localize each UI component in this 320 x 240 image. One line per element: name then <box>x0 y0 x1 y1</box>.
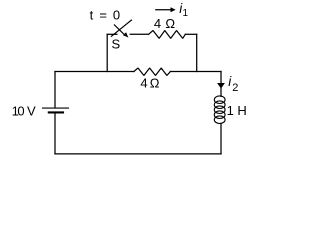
wire: left vertical bottom lead from battery to bottom rail <box>54 113 56 153</box>
svg-text:4: 4 <box>154 16 161 31</box>
wire: switch stub vertical from middle rail up to switch S <box>106 34 108 71</box>
wire: switch left lead <box>107 33 117 35</box>
svg-text:1: 1 <box>183 8 189 19</box>
resistor R2 4 ohm (middle branch) zigzag <box>134 68 171 76</box>
label i1 (top branch current) <box>179 1 188 19</box>
wire: left vertical top lead from node A to battery <box>54 72 56 108</box>
svg-text:t: t <box>90 8 94 23</box>
svg-text:4: 4 <box>140 76 147 91</box>
label i2 (inductor current) <box>228 74 238 94</box>
switch S blade (open arm) <box>111 20 131 36</box>
wire: top-right vertical from top rail down to middle rail <box>196 34 198 71</box>
resistor R1 4 ohm (top branch) zigzag <box>149 31 186 39</box>
svg-text:0: 0 <box>113 8 120 23</box>
wire: top rail right segment <box>185 33 196 35</box>
switch S closing-motion arrowhead <box>123 32 128 37</box>
wire: right vertical lower (inductor to bottom rail) <box>220 123 222 153</box>
svg-text:V: V <box>27 103 36 118</box>
svg-text:Ω: Ω <box>165 16 175 31</box>
label 10 V (battery V1) <box>12 103 36 118</box>
wire: middle rail left segment (node A to middle resistor) <box>55 71 134 73</box>
inductor L1 1 H coil <box>214 96 225 124</box>
battery V1 10 V negative plate (short thick) <box>49 111 63 113</box>
svg-text:=: = <box>99 8 107 23</box>
wire: middle rail right segment (middle resistor to node B) <box>170 71 221 73</box>
current arrow i2 head (on right vertical, pointing down) <box>217 83 225 89</box>
svg-text:S: S <box>112 36 121 51</box>
svg-text:Ω: Ω <box>150 76 160 91</box>
label 4 ohm (middle resistor R2) <box>140 76 159 91</box>
svg-text:1 H: 1 H <box>227 103 247 118</box>
wire: right vertical upper (node B down to inductor) <box>220 72 222 97</box>
switch S closing-motion arrow shaft <box>114 25 123 34</box>
label 4 ohm (top resistor R1) <box>154 16 176 31</box>
current arrow i1 shaft <box>155 9 171 11</box>
svg-text:2: 2 <box>232 82 238 94</box>
current arrow i1 head <box>171 7 176 12</box>
wire: bottom rail <box>55 153 221 155</box>
battery V1 10 V positive plate (long) <box>43 107 69 109</box>
svg-text:10: 10 <box>12 103 25 118</box>
wire: switch right lead to top resistor <box>130 33 148 35</box>
label t = 0 (switch closing time) <box>90 8 121 23</box>
